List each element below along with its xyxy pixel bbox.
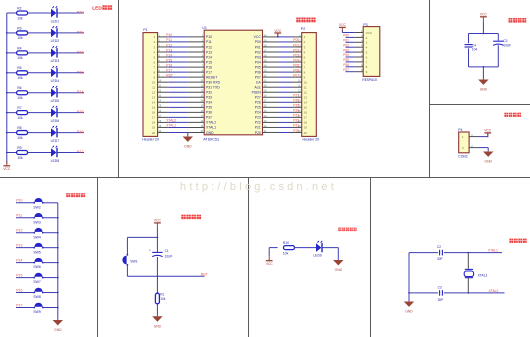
power VCC (U1 VCC pin) xyxy=(274,29,282,38)
svg-text:P03: P03 xyxy=(343,48,349,52)
value label 10k of R6 xyxy=(17,96,23,100)
ground symbol (P4) xyxy=(483,152,493,164)
svg-text:ALE: ALE xyxy=(254,86,261,90)
svg-text:XTAL1: XTAL1 xyxy=(488,249,498,253)
svg-text:VCC: VCC xyxy=(484,129,492,133)
svg-text:10: 10 xyxy=(304,80,308,84)
net label P16 (switch row) xyxy=(16,288,22,292)
connector P2 Header 20 (right) xyxy=(302,33,317,137)
section divider: horizontal line y=104 (right column) xyxy=(430,104,530,106)
net label P03 (right of U1) xyxy=(293,53,299,57)
svg-text:R6: R6 xyxy=(17,86,21,90)
wire: P1 pin 17 to U1 pin 17 (with pin numbers) xyxy=(158,116,205,118)
designator label P4 xyxy=(458,128,462,132)
svg-text:10k: 10k xyxy=(17,136,23,140)
svg-text:R1: R1 xyxy=(160,293,164,297)
wire: U1 pin 38 to P2 pin 3 (with pin numbers) xyxy=(263,45,302,47)
svg-text:10k: 10k xyxy=(283,252,289,256)
wire: U1 pin 33 to P2 pin 8 (with pin numbers) xyxy=(263,71,302,73)
wire: P1 pin 11 to U1 pin 11 (with pin numbers) xyxy=(158,86,205,88)
wire: rail to resistor R6 xyxy=(7,92,17,94)
value label 10k (R1) xyxy=(160,297,166,301)
wire: R5 to LED4 xyxy=(28,72,51,74)
wire: U1 pin 31 to P2 pin 10 (with pin numbers) xyxy=(263,81,302,83)
switch SW7 xyxy=(33,273,43,278)
wire: rail to resistor R3 xyxy=(7,32,17,34)
junction reset top xyxy=(157,237,159,239)
net label P10 (left of U1) xyxy=(166,33,172,37)
svg-text:SW3: SW3 xyxy=(33,220,40,224)
net label P04 (P3 row) xyxy=(343,53,349,57)
junction on LED rail row 3 xyxy=(6,52,8,54)
value label Header 20 (P2) xyxy=(303,138,320,142)
wire: U1 pin 30 to P2 pin 11 (with pin numbers) xyxy=(263,86,302,88)
LED LED6 xyxy=(51,106,58,118)
resistor R8 xyxy=(17,131,28,135)
switch SW3 xyxy=(33,213,43,218)
wire: reset junction to RST net xyxy=(157,275,204,277)
wire: VCC stub to U1 VCC row xyxy=(277,33,279,37)
net label P00 (right of U1) xyxy=(293,38,299,42)
wire: net P03 to P3 pin 5 xyxy=(346,49,364,53)
wire: net P10 to switch SW2 xyxy=(16,202,34,204)
wire: U1 pin 40 to P2 pin 1 (with pin numbers) xyxy=(263,35,302,37)
wire: net P02 to P3 pin 4 xyxy=(346,44,364,48)
resistor R2 xyxy=(17,11,28,15)
designator label P3 xyxy=(363,23,367,27)
svg-text:P25: P25 xyxy=(255,106,261,110)
svg-text:GND: GND xyxy=(206,131,214,135)
svg-text:XTAL1: XTAL1 xyxy=(166,124,176,128)
designator label XTAL1 (crystal) xyxy=(478,273,488,277)
svg-text:RST: RST xyxy=(201,273,208,277)
wire: net P14 to switch SW6 xyxy=(16,262,34,264)
wire: U1 pin 29 to P2 pin 12 (with pin numbers) xyxy=(263,91,302,93)
svg-text:LED7: LED7 xyxy=(51,139,60,143)
svg-text:10k: 10k xyxy=(17,56,23,60)
wire: VCC down to filter loop xyxy=(482,21,484,33)
svg-text:P01: P01 xyxy=(293,43,299,47)
wire: switch SW3 to rail xyxy=(43,217,58,219)
section divider: vertical line x=98 (bottom) xyxy=(97,178,99,337)
net label P07 (P3 row) xyxy=(343,68,349,72)
svg-text:GND: GND xyxy=(154,324,162,328)
svg-text:P26: P26 xyxy=(255,101,261,105)
svg-text:LED5: LED5 xyxy=(51,99,60,103)
svg-text:18: 18 xyxy=(152,121,156,125)
svg-text:P04: P04 xyxy=(293,58,299,62)
wire: LED9 to GND xyxy=(322,248,339,260)
svg-text:11: 11 xyxy=(304,86,307,90)
svg-text:10: 10 xyxy=(152,80,156,84)
svg-text:P01: P01 xyxy=(255,45,261,49)
resistor R3 xyxy=(17,31,28,35)
junction on switch rail row 2 xyxy=(57,217,59,219)
section divider: horizontal line y=177 (full width) xyxy=(0,177,530,179)
svg-text:5: 5 xyxy=(366,51,368,55)
value label RESPACK (P3) xyxy=(362,78,378,82)
svg-text:P16: P16 xyxy=(16,288,22,292)
designator label LED8 xyxy=(51,159,60,163)
wire: P1 pin 18 to U1 pin 18 (with pin numbers) xyxy=(158,121,205,123)
net label P05 (right of U1) xyxy=(293,63,299,67)
resistor R6 xyxy=(17,91,28,95)
svg-text:GND: GND xyxy=(480,88,488,92)
net label P23 (right of U1) xyxy=(293,114,299,118)
wire: VCC to P3 pin 1 xyxy=(342,29,363,33)
junction reset bottom xyxy=(157,275,159,277)
svg-text:P27: P27 xyxy=(255,96,261,100)
net label P11 (switch row) xyxy=(16,214,22,218)
svg-text:P13: P13 xyxy=(206,50,212,54)
svg-text:4: 4 xyxy=(366,46,368,50)
designator label SW1 xyxy=(130,260,137,264)
svg-text:P23: P23 xyxy=(255,116,261,120)
section divider: vertical line x=429 (top right) xyxy=(429,0,431,178)
wire: LED3 to net P12 xyxy=(57,52,84,54)
net label P01 (P3 row) xyxy=(343,39,349,43)
wire: R3 to LED2 xyxy=(28,32,51,34)
designator label SW9 xyxy=(33,310,40,314)
svg-text:30P: 30P xyxy=(437,257,443,261)
svg-text:PSEN: PSEN xyxy=(252,91,262,95)
svg-text:P02: P02 xyxy=(343,43,349,47)
svg-text:P36: P36 xyxy=(206,111,212,115)
svg-text:P37: P37 xyxy=(206,116,212,120)
op-amp U1 AT89C51 MCU body xyxy=(204,30,262,135)
value label 10UF (C1) xyxy=(165,254,173,258)
svg-text:P14: P14 xyxy=(77,90,84,94)
junction VCC row 1 xyxy=(277,36,279,38)
svg-text:P27: P27 xyxy=(293,94,299,98)
svg-text:P00: P00 xyxy=(255,40,261,44)
svg-text:RESET: RESET xyxy=(206,75,217,79)
svg-text:8: 8 xyxy=(366,65,368,69)
wire: U1 pin 24 to P2 pin 17 (with pin numbers) xyxy=(263,116,302,118)
svg-text:P15: P15 xyxy=(77,110,84,114)
wire: rail to resistor R4 xyxy=(7,52,17,54)
svg-text:R4: R4 xyxy=(17,46,21,50)
designator label LED6 xyxy=(51,119,60,123)
svg-text:RESPACK: RESPACK xyxy=(362,78,378,82)
svg-text:EA: EA xyxy=(256,80,261,84)
svg-text:P02: P02 xyxy=(255,50,261,54)
svg-text:P05: P05 xyxy=(255,65,261,69)
svg-text:P1: P1 xyxy=(143,28,147,32)
wire: net P15 to switch SW7 xyxy=(16,277,34,279)
net label P13 (LED row) xyxy=(77,70,84,74)
svg-text:P14: P14 xyxy=(166,53,172,57)
svg-text:SW4: SW4 xyxy=(33,235,40,239)
net label P06 (right of U1) xyxy=(293,68,299,72)
svg-text:C3: C3 xyxy=(438,286,442,290)
wire: R4 to LED3 xyxy=(28,52,51,54)
wire: P1 pin 7 to U1 pin 7 (with pin numbers) xyxy=(158,65,205,67)
designator label R10 xyxy=(283,241,289,245)
value label 10k of R9 xyxy=(17,156,23,160)
wire: P1 pin 6 to U1 pin 6 (with pin numbers) xyxy=(158,60,205,62)
svg-text:P10: P10 xyxy=(16,199,22,203)
svg-text:P13: P13 xyxy=(77,70,84,74)
net label P13 (switch row) xyxy=(16,243,22,247)
svg-text:14: 14 xyxy=(304,101,308,105)
net label P11 (left of U1) xyxy=(166,38,172,42)
resistor R4 xyxy=(17,51,28,55)
pin name labels of U1 xyxy=(206,35,262,135)
svg-text:LED9: LED9 xyxy=(313,253,322,257)
svg-text:15: 15 xyxy=(152,106,156,110)
net label P14 (LED row) xyxy=(77,90,84,94)
svg-text:SW9: SW9 xyxy=(33,310,40,314)
svg-text:20: 20 xyxy=(304,131,308,135)
section title: filter circuit (red) xyxy=(509,18,527,23)
resistor network P3 (pull-up pack) xyxy=(363,27,380,77)
wire: junction down to R1 xyxy=(156,276,158,293)
svg-text:P13: P13 xyxy=(166,48,172,52)
wire: net P11 to switch SW3 xyxy=(16,217,34,219)
svg-text:R9: R9 xyxy=(17,146,21,150)
net label P14 (switch row) xyxy=(16,258,22,262)
svg-text:GND: GND xyxy=(335,268,343,272)
value label 10k (R10) xyxy=(283,252,289,256)
wire: R10 to LED9 xyxy=(294,247,316,249)
wire: LED2 to net P11 xyxy=(57,32,84,34)
value label 10UF (C3) xyxy=(503,44,511,48)
wire: U1 GND pin stub down xyxy=(187,132,189,136)
wire: switch SW7 to rail xyxy=(43,277,58,279)
LED LED7 xyxy=(51,126,58,138)
wire: filter loop bottom rail xyxy=(469,66,499,68)
switch SW1 (reset) xyxy=(123,254,129,266)
svg-text:P07: P07 xyxy=(255,75,261,79)
svg-text:LED8: LED8 xyxy=(51,159,60,163)
designator label SW8 xyxy=(33,295,40,299)
svg-text:10k: 10k xyxy=(17,96,23,100)
svg-text:104: 104 xyxy=(472,47,478,51)
svg-text:12: 12 xyxy=(304,91,308,95)
svg-text:10UF: 10UF xyxy=(503,44,511,48)
designator label SW2 xyxy=(33,205,40,209)
svg-text:P06: P06 xyxy=(255,70,261,74)
svg-text:P02: P02 xyxy=(293,48,299,52)
resistor R9 xyxy=(17,151,28,155)
svg-text:CON2: CON2 xyxy=(458,154,468,158)
svg-text:10UF: 10UF xyxy=(165,254,173,258)
designator label C2 xyxy=(437,245,441,249)
svg-text:P22: P22 xyxy=(293,119,299,123)
designator label U1 xyxy=(202,26,207,30)
svg-text:GND: GND xyxy=(54,328,62,332)
wire: net P00 to P3 pin 2 xyxy=(346,34,364,38)
designator label LED9 xyxy=(313,253,322,257)
svg-text:P25: P25 xyxy=(293,104,299,108)
designator label LED7 xyxy=(51,139,60,143)
LED LED8 xyxy=(51,146,58,158)
power VCC (LED rail, bar style down) xyxy=(3,161,11,171)
section title: power connector (red) xyxy=(504,113,521,117)
svg-text:18: 18 xyxy=(304,121,308,125)
junction on LED rail row 7 xyxy=(6,132,8,134)
junction on switch rail row 5 xyxy=(57,262,59,264)
svg-text:LED2: LED2 xyxy=(51,39,60,43)
wire: net P13 to switch SW5 xyxy=(16,247,34,249)
svg-text:C3: C3 xyxy=(503,39,507,43)
wire: P4 pin 2 to GND xyxy=(469,144,488,151)
net label P17 (LED row) xyxy=(77,150,84,154)
svg-text:P22: P22 xyxy=(255,121,261,125)
watermark text xyxy=(180,181,337,193)
svg-text:SW2: SW2 xyxy=(33,205,40,209)
svg-text:VCC: VCC xyxy=(274,29,282,33)
power VCC (indicator, bar style down) xyxy=(266,256,274,266)
wire: junction to C1 xyxy=(156,237,158,252)
net label XTAL1 xyxy=(488,249,498,253)
net label P15 (LED row) xyxy=(77,110,84,114)
net label P24 (right of U1) xyxy=(293,109,299,113)
wire: U1 pin 35 to P2 pin 6 (with pin numbers) xyxy=(263,60,302,62)
section title: main control circuit (red) xyxy=(296,18,315,23)
svg-text:Header 20: Header 20 xyxy=(303,138,320,142)
wire: LED8 to net P17 xyxy=(57,152,84,154)
svg-text:VCC: VCC xyxy=(254,35,262,39)
net label P12 (switch row) xyxy=(16,229,22,233)
wire: U1 pin 25 to P2 pin 16 (with pin numbers) xyxy=(263,111,302,113)
designator label R9 xyxy=(17,146,21,150)
svg-text:P34: P34 xyxy=(206,101,212,105)
svg-text:P30 RXD: P30 RXD xyxy=(206,80,221,84)
svg-text:P16: P16 xyxy=(166,63,172,67)
svg-text:P20: P20 xyxy=(255,131,261,135)
svg-text:XTAL1: XTAL1 xyxy=(206,126,216,130)
svg-text:R8: R8 xyxy=(17,126,21,130)
svg-text:P04: P04 xyxy=(255,60,261,64)
net label P05 (P3 row) xyxy=(343,58,349,62)
power VCC (filter) xyxy=(480,13,488,22)
svg-text:P17: P17 xyxy=(77,150,84,154)
wire: R7 to LED6 xyxy=(28,112,51,114)
svg-text:P17: P17 xyxy=(166,68,172,72)
svg-text:P04: P04 xyxy=(343,53,349,57)
LED LED3 xyxy=(51,46,58,58)
wire: U1 pin 34 to P2 pin 7 (with pin numbers) xyxy=(263,65,302,67)
svg-text:P10: P10 xyxy=(206,35,212,39)
designator label R3 xyxy=(17,26,21,30)
wire: R6 to LED5 xyxy=(28,92,51,94)
wire: P1 pin 4 to U1 pin 4 (with pin numbers) xyxy=(158,50,205,52)
net label P21 (right of U1) xyxy=(293,124,299,128)
svg-text:VCC: VCC xyxy=(154,219,162,223)
svg-text:17: 17 xyxy=(304,116,308,120)
svg-text:30P: 30P xyxy=(438,298,444,302)
net label P20 (right of U1) xyxy=(293,129,299,133)
wire: U1 pin 32 to P2 pin 9 (with pin numbers) xyxy=(263,76,302,78)
svg-text:GND: GND xyxy=(485,160,493,164)
net label P12 (LED row) xyxy=(77,50,84,54)
net label P01 (right of U1) xyxy=(293,43,299,47)
wire: reset left branch top xyxy=(127,237,157,254)
designator label SW5 xyxy=(33,250,40,254)
net label P15 (left of U1) xyxy=(166,58,172,62)
connector P1 Header 20 (left) xyxy=(143,33,158,137)
wire: net P12 to switch SW4 xyxy=(16,232,34,234)
value label 10k of R2 xyxy=(17,16,23,20)
wire: switch SW5 to rail xyxy=(43,247,58,249)
ground symbol (reset) xyxy=(152,316,162,328)
value label Header 20 (P1) xyxy=(142,138,159,142)
svg-text:13: 13 xyxy=(152,96,156,100)
value label CON2 xyxy=(458,154,468,158)
connector P4 CON2 xyxy=(459,132,469,153)
wire: LED4 to net P13 xyxy=(57,72,84,74)
wire: filter right branch xyxy=(497,34,499,67)
svg-text:P03: P03 xyxy=(255,55,261,59)
junction on LED rail row 2 xyxy=(6,32,8,34)
junction filter top xyxy=(483,33,485,35)
ground symbol (crystal) xyxy=(404,302,414,314)
svg-text:P10: P10 xyxy=(166,33,172,37)
switch SW4 xyxy=(33,228,43,233)
net label P22 (right of U1) xyxy=(293,119,299,123)
svg-text:6: 6 xyxy=(366,55,368,59)
wire: R2 to LED1 xyxy=(28,12,51,14)
wire: P1 pin 9 to U1 pin 9 (with pin numbers) xyxy=(158,76,205,78)
designator label LED2 xyxy=(51,39,60,43)
svg-text:P32: P32 xyxy=(206,91,212,95)
svg-text:10k: 10k xyxy=(17,116,23,120)
wire: P1 pin 5 to U1 pin 5 (with pin numbers) xyxy=(158,55,205,57)
capacitor C3 (electrolytic, filter) xyxy=(493,41,503,45)
svg-text:LED4: LED4 xyxy=(51,79,60,83)
value label 10k of R8 xyxy=(17,136,23,140)
wire: P1 pin 13 to U1 pin 13 (with pin numbers) xyxy=(158,96,205,98)
wire: R1 to GND xyxy=(156,304,158,316)
section title: push-button circuit (red) xyxy=(66,193,85,197)
svg-text:P03: P03 xyxy=(293,53,299,57)
svg-text:C1: C1 xyxy=(165,249,169,253)
switch SW8 xyxy=(33,288,43,293)
designator label P2 xyxy=(301,27,305,31)
net label RST xyxy=(201,273,208,277)
designator label LED5 xyxy=(51,99,60,103)
svg-text:SW6: SW6 xyxy=(33,265,40,269)
wire: net P07 to P3 pin 9 xyxy=(346,68,364,72)
designator label SW3 xyxy=(33,220,40,224)
resistor R5 xyxy=(17,71,28,75)
value label 104 (C4) xyxy=(472,47,478,51)
wire: net P06 to P3 pin 8 xyxy=(346,63,364,67)
wire: filter loop top rail xyxy=(469,33,499,35)
svg-text:P21: P21 xyxy=(255,126,261,130)
designator label R2 xyxy=(17,6,21,10)
wire: U1 pin 22 to P2 pin 19 (with pin numbers) xyxy=(263,126,302,128)
net label P07 (right of U1) xyxy=(293,73,299,77)
designator label R6 xyxy=(17,86,21,90)
svg-text:P07: P07 xyxy=(293,73,299,77)
svg-text:SW5: SW5 xyxy=(33,250,40,254)
svg-text:R5: R5 xyxy=(17,66,21,70)
resistor R1 xyxy=(155,293,159,304)
svg-text:P07: P07 xyxy=(343,68,349,72)
wire: U1 pin 23 to P2 pin 18 (with pin numbers) xyxy=(263,121,302,123)
junction crystal top xyxy=(467,252,469,254)
wire: filter bottom to GND xyxy=(482,67,484,80)
wire: LED1 to net P10 xyxy=(57,12,84,14)
svg-text:P00: P00 xyxy=(293,38,299,42)
value label 10k of R4 xyxy=(17,56,23,60)
wire: P1 pin 19 to U1 pin 19 (with pin numbers) xyxy=(158,126,205,128)
svg-text:LED6: LED6 xyxy=(51,119,60,123)
power VCC (P3 pin 1) xyxy=(339,23,347,32)
